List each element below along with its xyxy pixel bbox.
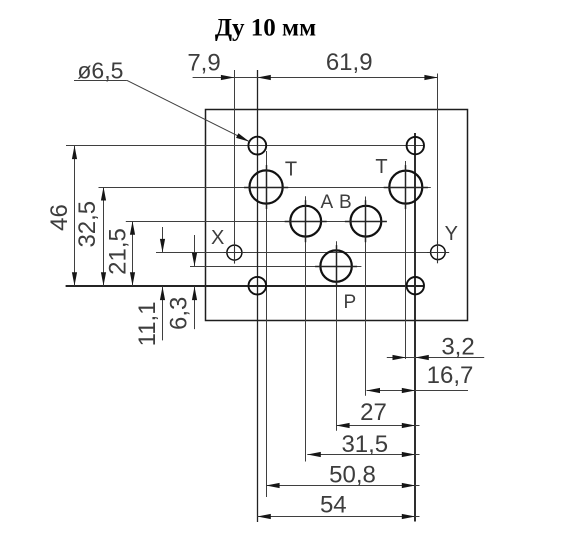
svg-text:T: T <box>285 159 297 181</box>
svg-text:Y: Y <box>445 223 458 245</box>
B port center cross <box>345 200 387 242</box>
dimension text 16,7 <box>427 362 474 389</box>
label T left <box>285 159 297 181</box>
dimension text 21,5 <box>105 228 132 275</box>
dimension 27 line <box>336 423 419 428</box>
svg-text:X: X <box>211 227 224 249</box>
svg-text:7,9: 7,9 <box>187 50 220 77</box>
mounting hole top-left <box>248 137 266 155</box>
port hole T right <box>389 171 422 204</box>
label Y <box>445 223 458 245</box>
dimension 54 line <box>257 514 419 519</box>
T right port vertical centerline / 3,2 extension <box>405 161 407 359</box>
T ports centerline / 32,5 extension <box>99 187 431 189</box>
X hole vertical centerline / 7,9 extension <box>234 70 236 263</box>
port hole A <box>290 206 321 237</box>
dimension 21,5 line <box>130 221 135 286</box>
dimension text 54 <box>320 492 347 519</box>
left mounting holes vertical centerline / 54 extension <box>257 70 259 522</box>
label T right <box>375 156 387 178</box>
Y hole center cross <box>427 241 449 263</box>
svg-text:16,7: 16,7 <box>427 362 474 389</box>
A B ports centerline / 21,5 extension <box>126 221 384 223</box>
dimension 31,5 line <box>307 452 419 457</box>
X hole center cross <box>223 242 245 264</box>
port hole P <box>320 250 351 281</box>
mounting hole bottom-right <box>407 277 424 294</box>
label X <box>211 227 224 249</box>
dimension text 6,3 <box>166 297 193 330</box>
dimension text 31,5 <box>341 431 388 458</box>
svg-text:Ду 10 мм: Ду 10 мм <box>215 15 316 42</box>
X Y holes centerline / 11,1 extension <box>156 252 449 254</box>
B port vertical centerline / 16,7 extension <box>365 197 367 396</box>
T left port center cross <box>244 165 288 209</box>
title Du 10 mm <box>215 15 316 42</box>
dimension 11,1 arrows <box>160 227 165 340</box>
mounting hole bottom-left <box>248 277 266 295</box>
svg-text:B: B <box>339 192 352 213</box>
svg-text:54: 54 <box>320 492 347 519</box>
dimension 32,5 line <box>101 187 106 286</box>
dimension 3,2 line <box>387 355 484 360</box>
svg-text:T: T <box>375 156 387 178</box>
svg-text:11,1: 11,1 <box>134 301 161 346</box>
svg-text:31,5: 31,5 <box>341 431 388 458</box>
top mounting holes centerline / 46 extension <box>66 145 424 147</box>
T right port center cross <box>384 165 428 209</box>
dimension text 11,1 <box>134 301 161 346</box>
dimension text 61,9 <box>326 49 373 76</box>
svg-text:3,2: 3,2 <box>441 333 474 360</box>
svg-text:ø6,5: ø6,5 <box>77 58 123 84</box>
svg-text:46: 46 <box>46 204 73 231</box>
P port centerline / 6,3 extension <box>190 266 361 268</box>
port hole B <box>351 206 382 237</box>
right mounting holes vertical centerline (thick datum) <box>414 133 416 522</box>
label B <box>339 192 352 213</box>
svg-text:21,5: 21,5 <box>105 228 132 275</box>
svg-text:32,5: 32,5 <box>74 201 101 248</box>
A port center cross <box>285 200 327 242</box>
label P <box>343 292 356 313</box>
dimension 7,9 and 61,9 line <box>193 75 438 80</box>
Y hole vertical centerline / 61,9 extension <box>437 74 439 262</box>
dimension 46 line <box>72 146 77 286</box>
dimension text 46 <box>46 204 73 231</box>
dimension 16,7 line <box>367 388 469 393</box>
leader line for diameter 6,5 <box>74 80 250 144</box>
leader text diameter 6,5 <box>77 58 123 84</box>
T left port vertical centerline / 50,8 extension <box>266 151 268 497</box>
label A <box>320 192 333 213</box>
dimension text 7,9 <box>187 50 220 77</box>
mounting hole top-right <box>407 137 424 154</box>
dimension text 3,2 <box>441 333 474 360</box>
dimension text 50,8 <box>329 461 376 488</box>
svg-text:6,3: 6,3 <box>166 297 193 330</box>
P port center cross <box>315 245 357 287</box>
svg-text:50,8: 50,8 <box>329 461 376 488</box>
svg-text:27: 27 <box>360 399 387 426</box>
dimension 6,3 arrows <box>192 235 197 329</box>
pilot hole Y <box>431 245 446 260</box>
dimension 50,8 line <box>266 483 419 488</box>
pilot hole X <box>227 245 242 260</box>
dimension text 32,5 <box>74 201 101 248</box>
P port vertical centerline / 27 extension <box>336 241 338 430</box>
svg-text:P: P <box>343 292 356 313</box>
svg-text:61,9: 61,9 <box>326 49 373 76</box>
svg-text:A: A <box>320 192 333 213</box>
dimension text 27 <box>360 399 387 426</box>
bottom mounting holes centerline (datum) <box>66 285 425 287</box>
A port vertical centerline / 31,5 extension <box>305 196 307 461</box>
port hole T left <box>250 170 283 203</box>
plate outline <box>206 110 468 321</box>
